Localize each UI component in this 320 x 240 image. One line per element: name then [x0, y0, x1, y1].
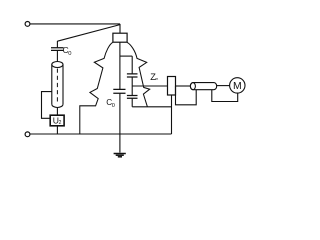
- capacitor C0 (top-left): [51, 48, 64, 51]
- measuring cable (cylinder): [190, 83, 216, 90]
- wire U box to bottom bus: [56, 126, 58, 134]
- wire vertical from top node down to spark-gap box: [119, 24, 121, 33]
- svg-text:0: 0: [68, 51, 71, 57]
- wire chain middle segment: [131, 77, 133, 95]
- wire center line to ground: [119, 134, 121, 153]
- dashed axis inside divider: [56, 69, 58, 103]
- capacitor chain lower: [127, 96, 138, 99]
- ground symbol: [114, 153, 126, 155]
- wire chain upper segment: [131, 56, 133, 74]
- transformer bushing outline right: [127, 42, 150, 106]
- wire from divider side tap to U box: [42, 92, 52, 119]
- svg-text:m: m: [155, 77, 158, 81]
- wire cable shield loop A: [176, 86, 197, 105]
- voltage divider column (cylinder): [52, 62, 63, 68]
- wire transformer center conductor (upper): [119, 42, 121, 89]
- capacitor chain upper: [127, 74, 138, 77]
- wire center conductor (lower): [119, 94, 121, 135]
- wire top horizontal from T1 to node at x=120: [30, 23, 120, 25]
- svg-text:M: M: [233, 81, 242, 92]
- wire chain bottom segment: [131, 99, 133, 107]
- terminal T2 (bottom-left input): [25, 132, 30, 137]
- svg-text:2: 2: [59, 120, 62, 126]
- spark gap box (top): [113, 33, 127, 42]
- wire divider bottom to U box: [56, 107, 58, 115]
- transformer bushing outline left: [80, 42, 113, 134]
- svg-text:0: 0: [112, 103, 115, 109]
- wire measuring tap from chain to Z: [132, 85, 167, 87]
- wire chain bottom to Z leg: [132, 106, 171, 108]
- wire tap from Z to cable: [176, 85, 191, 87]
- wire from diagonal corner down to capacitor C0: [56, 41, 58, 47]
- impedance Z box: [168, 77, 176, 96]
- meter M circle: [230, 78, 245, 93]
- instrument box U2: [50, 115, 64, 126]
- wire branch to capacitor chain: [120, 55, 132, 57]
- wire diagonal from top node to C0 branch: [57, 25, 120, 42]
- wire cable to meter M: [217, 85, 230, 87]
- terminal T1 (top-left input): [25, 22, 30, 27]
- wire Z bottom leg to bus: [171, 95, 173, 134]
- wire cable shield loop B to meter: [212, 90, 238, 102]
- capacitor C0 (center): [113, 89, 125, 93]
- wire from C0 to divider column: [56, 50, 58, 61]
- wire bottom bus: [30, 133, 172, 135]
